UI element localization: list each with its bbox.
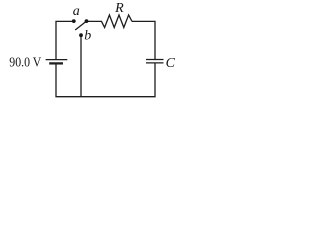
svg-text:C: C — [166, 56, 176, 71]
resistor R zigzag with leads — [87, 15, 133, 28]
svg-text:a: a — [73, 4, 80, 19]
wire: bottom from junction to bottom-right corner and up to capacitor bottom plate — [81, 63, 155, 97]
svg-text:b: b — [84, 29, 91, 44]
switch arm (open blade between contacts a and b) — [75, 21, 86, 30]
wire: top-left from switch contact a to corner and down to battery + plate — [56, 21, 74, 59]
svg-text:R: R — [114, 1, 124, 16]
capacitor C bottom plate — [146, 62, 164, 64]
wire: battery - terminal down to bottom-left corner, along bottom to b-branch junction — [56, 63, 81, 96]
svg-text:90.0 V: 90.0 V — [9, 55, 41, 70]
switch contact dot b — [79, 33, 83, 37]
wire: resistor right lead to top-right corner and down to capacitor top plate — [132, 21, 155, 59]
capacitor C top plate — [146, 59, 164, 61]
battery short plate (-) — [49, 62, 63, 64]
battery long plate (+) — [46, 59, 68, 61]
switch contact dot a — [72, 19, 76, 23]
wire: node b down to bottom wire junction — [80, 35, 82, 96]
switch pivot contact dot — [85, 19, 89, 23]
